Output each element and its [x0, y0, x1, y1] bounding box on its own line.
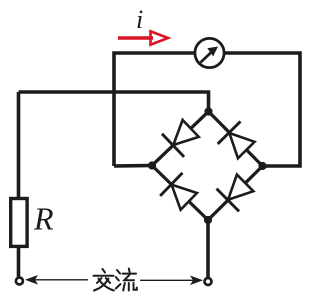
diode D2 (upper-right, cathode toward top node) — [218, 121, 258, 161]
ammeter / galvanometer (meter in top wire) — [195, 38, 224, 67]
pointer arrow to left terminal — [25, 275, 88, 285]
wire: AC feed horizontal from far-left vertical to bridge top node — [19, 92, 209, 112]
pointer arrow to right terminal — [140, 276, 203, 286]
label 交流 (AC) : char 流 — [116, 269, 137, 291]
diode D3 (lower-left, cathode toward left node) — [160, 173, 200, 213]
wire: bridge edge bottom-right — [208, 166, 263, 220]
wire: bridge edge top-right — [209, 112, 263, 167]
wire: left riser to bridge left node — [114, 164, 152, 168]
wire: far-left vertical down to resistor — [17, 92, 21, 199]
label 交流 (AC) : hand-drawn strokes, char 交 — [94, 269, 114, 291]
node: bridge top junction — [204, 107, 212, 115]
wire: top horizontal (left vertical riser to meter loop) — [114, 53, 300, 166]
current arrow i (red) — [118, 31, 168, 44]
wire: bridge edge top-left — [152, 112, 209, 166]
node: bridge right junction — [258, 162, 266, 170]
resistor R — [11, 199, 27, 247]
diode D4 (lower-right, cathode toward bottom node) — [217, 171, 257, 211]
wire: bridge edge bottom-left — [152, 166, 208, 221]
terminal: left (AC input) — [16, 278, 23, 285]
wire: bridge bottom node down to right terminal — [206, 220, 210, 278]
terminal: right (AC input) — [205, 278, 212, 285]
node: bridge bottom junction — [204, 216, 212, 224]
wire: resistor bottom to left terminal — [17, 246, 21, 277]
node: bridge left junction — [148, 161, 156, 169]
diode D1 (upper-left, cathode toward left node) — [162, 117, 202, 157]
svg-text:i: i — [136, 5, 143, 34]
svg-text:R: R — [33, 201, 54, 237]
